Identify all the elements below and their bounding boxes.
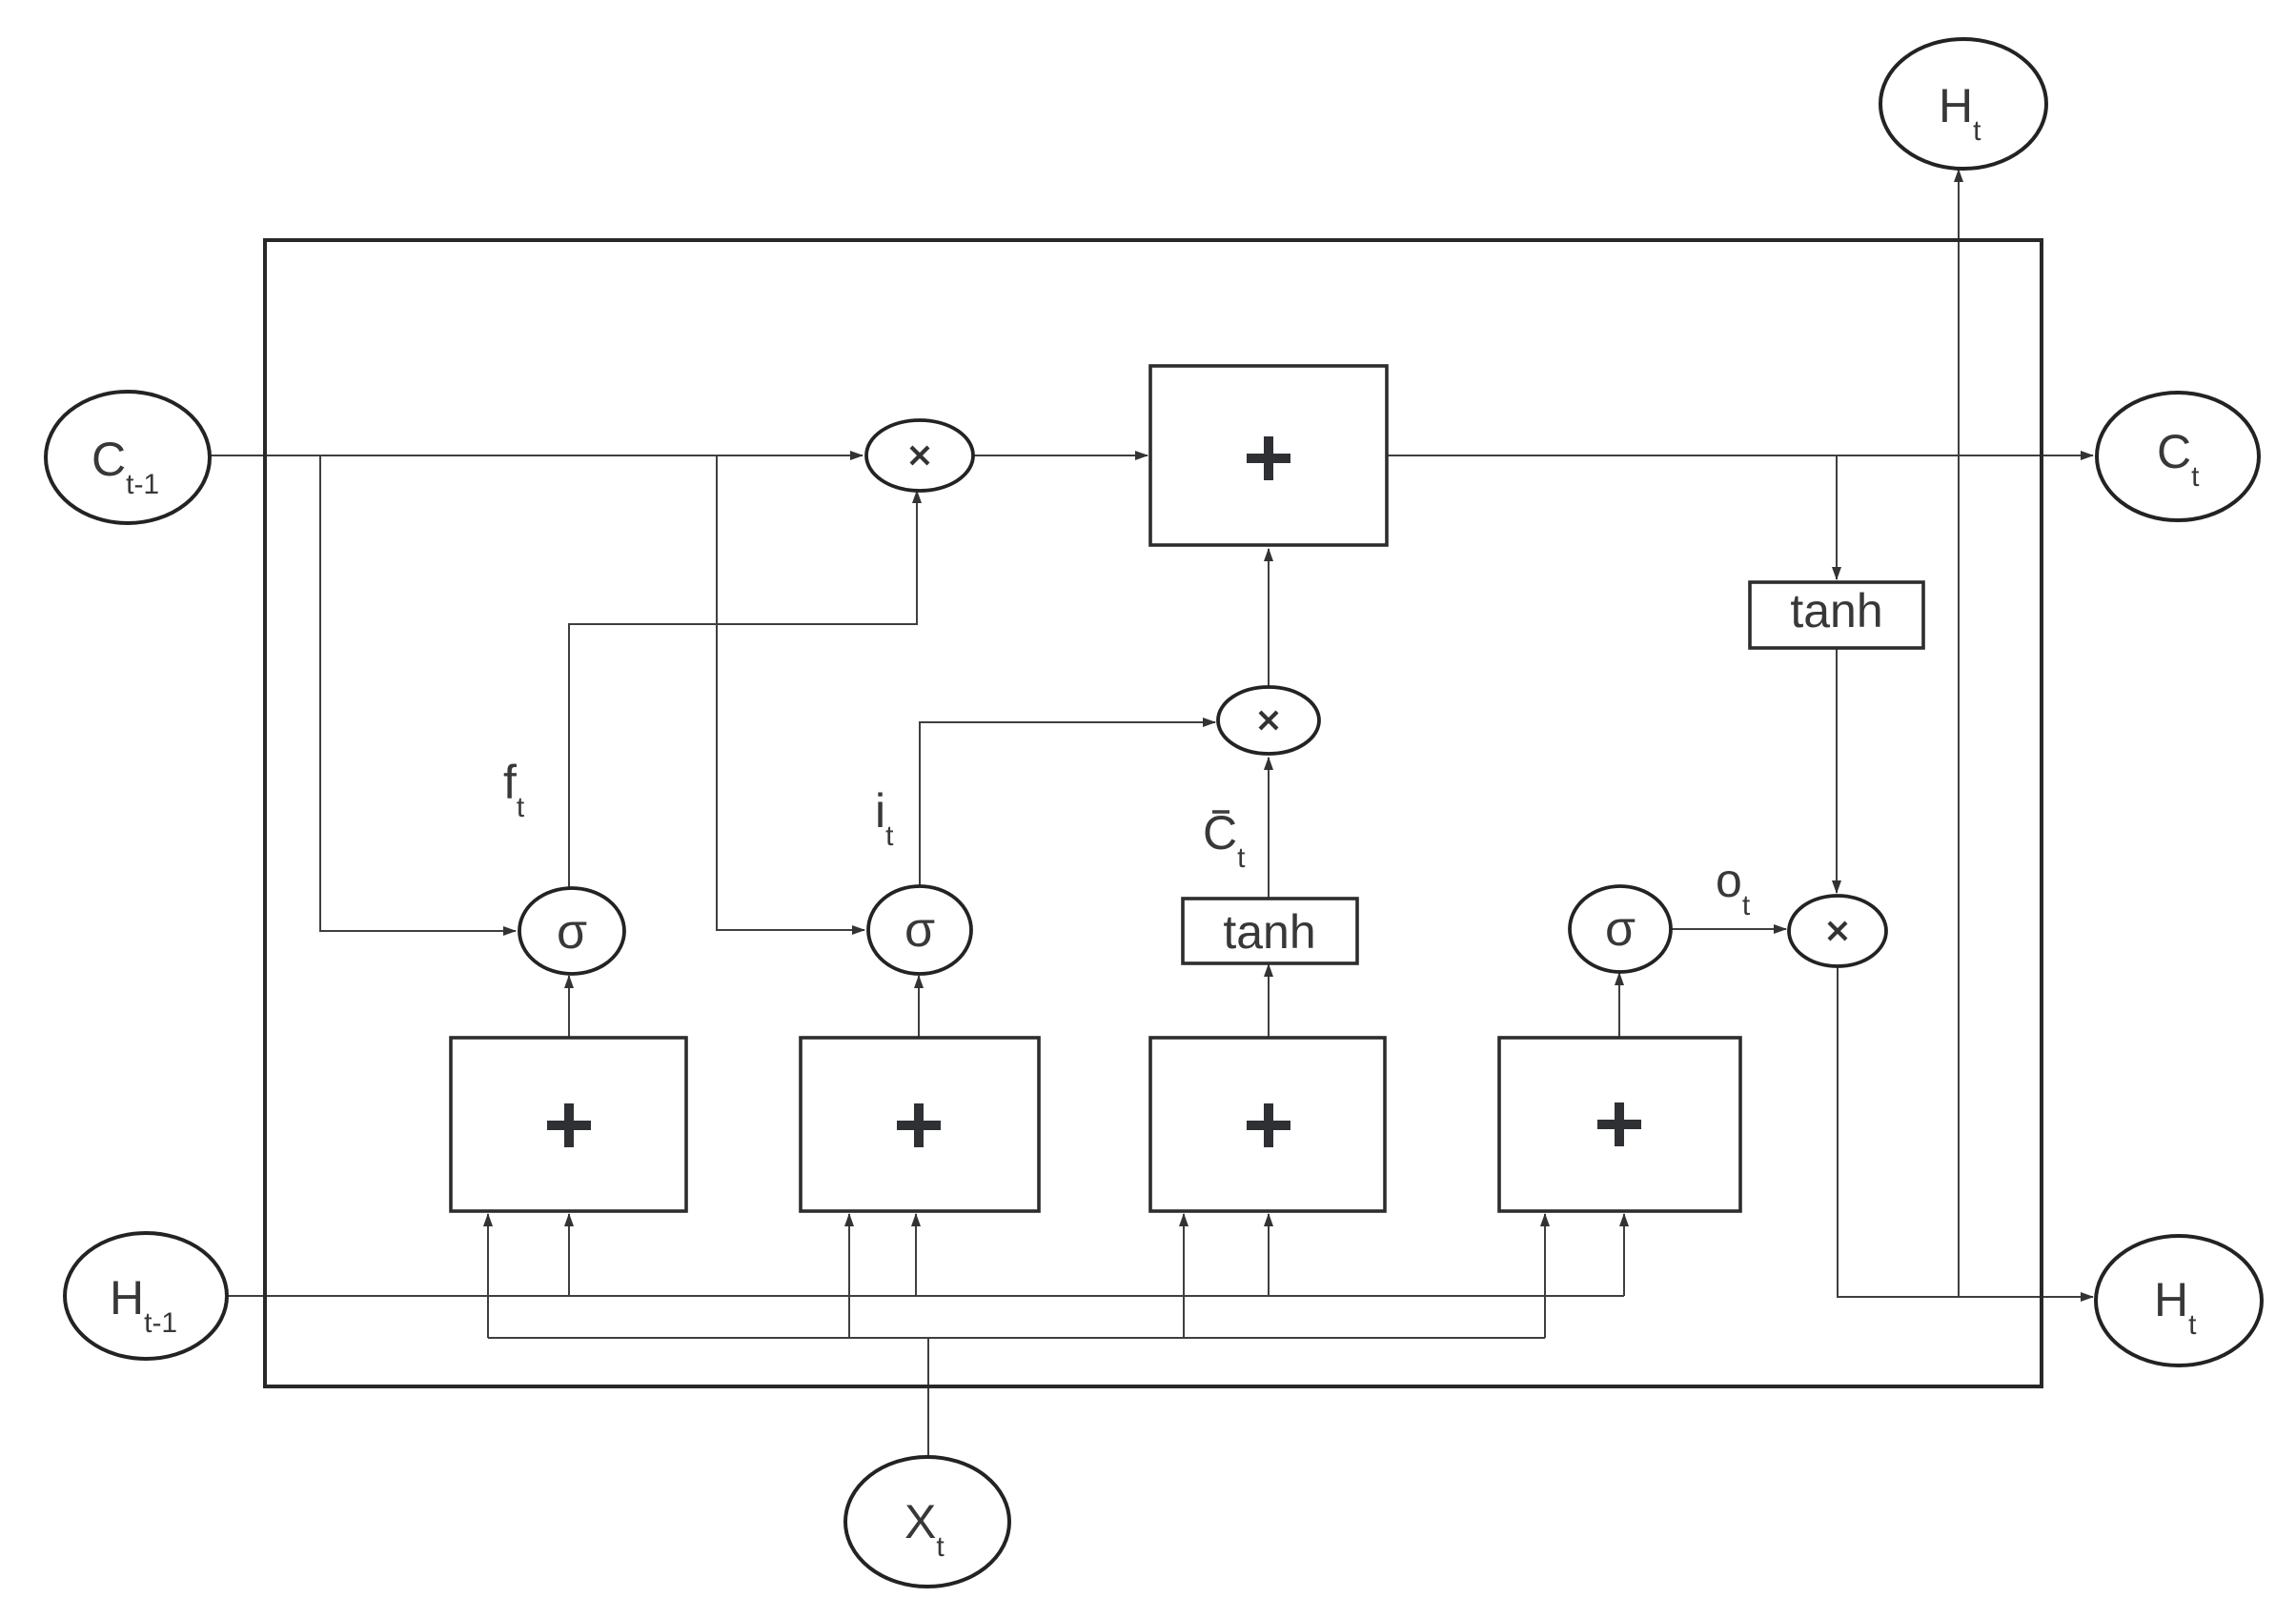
svg-text:ot: ot (1716, 854, 1751, 921)
svg-text:tanh: tanh (1223, 905, 1315, 959)
svg-text:σ: σ (557, 904, 587, 960)
svg-text:σ: σ (1605, 901, 1636, 957)
svg-text:σ: σ (904, 902, 935, 958)
svg-text:tanh: tanh (1790, 584, 1882, 637)
svg-text:ft: ft (503, 756, 525, 823)
svg-text:Ct: Ct (1203, 806, 1246, 874)
svg-text:it: it (875, 784, 894, 852)
